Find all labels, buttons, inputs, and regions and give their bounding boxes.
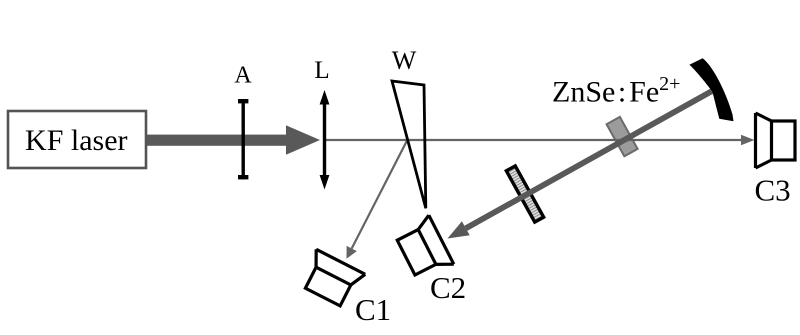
- detector C3: [756, 113, 796, 168]
- laser output beam bar: [146, 135, 287, 146]
- detector C2: [394, 215, 454, 282]
- thick pump beam from mirror to C2: [466, 90, 714, 228]
- arrowhead into C1: [347, 246, 357, 259]
- lens L (double-headed arrow): [320, 90, 330, 190]
- curved mirror: [689, 58, 733, 121]
- laser output beam arrowhead: [286, 125, 320, 154]
- svg-text:C1: C1: [355, 292, 391, 327]
- thin probe beam wire (lens to C3): [324, 139, 743, 141]
- svg-text:KF laser: KF laser: [25, 124, 127, 157]
- aperture A: [238, 99, 248, 179]
- arrowhead into C2: [448, 221, 470, 238]
- beam splitter plate (hatched): [504, 164, 546, 225]
- svg-text:C3: C3: [755, 172, 791, 207]
- svg-text:A: A: [234, 63, 252, 89]
- svg-text:C2: C2: [430, 270, 466, 305]
- svg-text:L: L: [314, 57, 329, 84]
- svg-text:W: W: [392, 46, 417, 75]
- thin reflected beam wire (wedge to C1): [352, 140, 408, 249]
- arrowhead into C3: [741, 135, 755, 145]
- detector C1: [298, 249, 365, 309]
- wedge W: [392, 81, 426, 208]
- crystal ZnSe:Fe2+ (gray tilted slab): [607, 117, 638, 156]
- KF laser box: [8, 111, 146, 168]
